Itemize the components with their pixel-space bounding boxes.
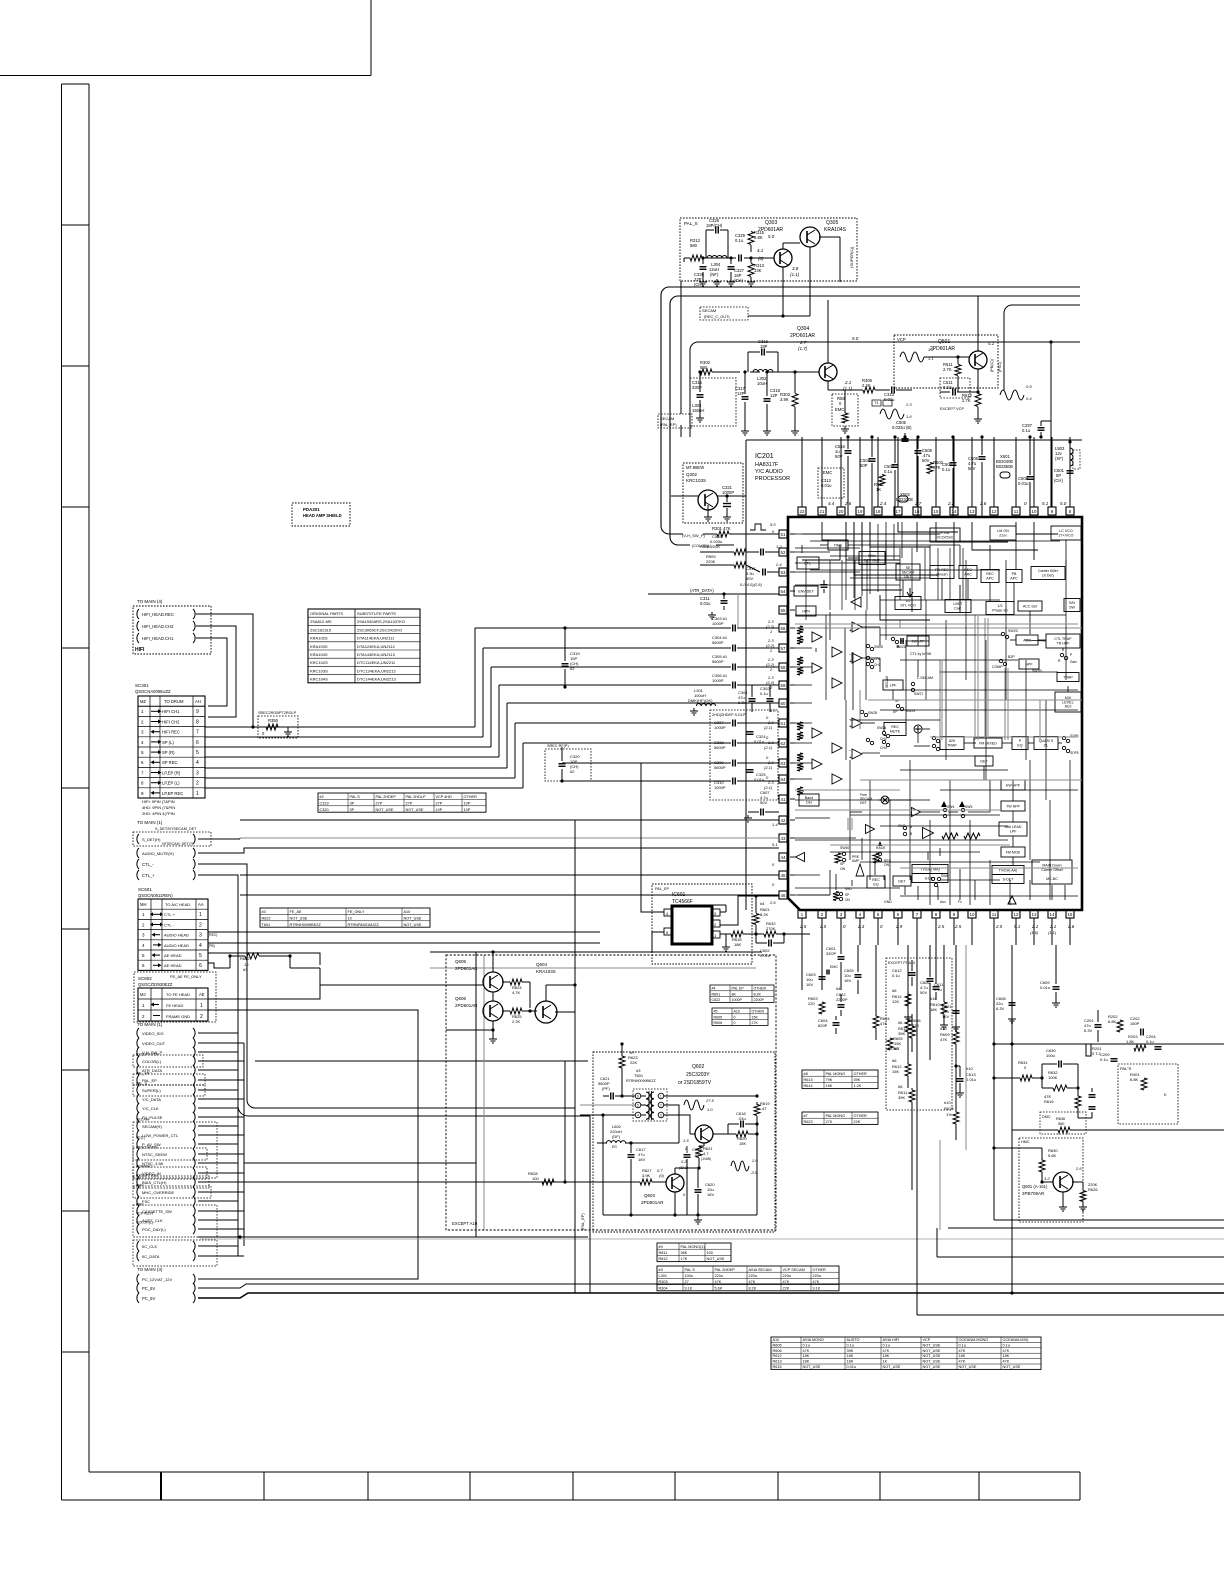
svg-text:9: 9 <box>196 709 199 715</box>
svg-text:DTA114EKA,UN2111: DTA114EKA,UN2111 <box>357 636 395 641</box>
dashed box VIDEO_IN <box>133 1167 207 1179</box>
connector VIDEO_IN <box>137 1168 139 1178</box>
svg-text:(PAL_EP): (PAL_EP) <box>581 1213 585 1230</box>
svg-text:2200P: 2200P <box>836 997 848 1002</box>
capacitor C511 dashed <box>940 378 970 398</box>
svg-text:2.7K: 2.7K <box>962 398 971 403</box>
svg-text:VIDEO_SIG: VIDEO_SIG <box>142 1031 164 1036</box>
svg-text:R605: R605 <box>714 1015 723 1019</box>
interior switch pairs <box>866 644 869 647</box>
svg-text:Carr.: Carr. <box>954 607 962 611</box>
svg-text:SP (R): SP (R) <box>162 750 175 755</box>
pin 12 bottom <box>1012 910 1020 918</box>
block TIME <box>828 540 848 550</box>
svg-text:R614: R614 <box>804 1084 813 1088</box>
diff amp triangle <box>852 749 862 759</box>
svg-text:220u: 220u <box>715 1274 723 1278</box>
svg-text:33K: 33K <box>754 268 762 273</box>
svg-text:PAL_S: PAL_S <box>136 1082 148 1086</box>
pin 13 bottom <box>1030 910 1038 918</box>
svg-text:7: 7 <box>196 730 199 736</box>
page frame top-right vertical <box>370 0 372 76</box>
svg-text:VCP: VCP <box>897 337 906 342</box>
wire Q305 collector down <box>809 247 811 316</box>
svg-text:FE_AE: FE_AE <box>290 910 302 914</box>
svg-text:#2: #2 <box>570 769 575 774</box>
wire Q501 collector <box>977 296 979 351</box>
svg-text:PB: PB <box>1012 572 1017 576</box>
EXCEPT PT A10 dashed enclosure <box>886 958 952 1110</box>
svg-text:A10: A10 <box>773 1338 780 1342</box>
svg-text:47K: 47K <box>940 1037 947 1042</box>
capacitor C329 <box>738 255 740 262</box>
svg-text:15K: 15K <box>752 1015 759 1019</box>
wire Q303 emitter down <box>782 267 784 316</box>
svg-text:3.9K: 3.9K <box>780 397 789 402</box>
vertical x917 from pin7 <box>916 945 918 1315</box>
wire Q304 collector up <box>827 300 829 363</box>
svg-text:DTA124EKA,UN2112: DTA124EKA,UN2112 <box>357 644 396 649</box>
wires into IC left pins lower <box>240 819 779 821</box>
wire AUDIO_MUTE long <box>198 848 779 853</box>
connector PAL_EP <box>137 1075 139 1085</box>
resistor R604 <box>873 1016 879 1028</box>
below-IC wire rail <box>801 945 803 990</box>
transistor Q501 <box>969 351 987 369</box>
table A10 options <box>771 1337 1041 1369</box>
svg-text:HA8317F: HA8317F <box>755 462 779 468</box>
svg-text:(S Det): (S Det) <box>1042 574 1053 578</box>
svg-text:RACK: RACK <box>876 846 886 850</box>
svg-text:4HD: 9PIN (7&PIN: 4HD: 9PIN (7&PIN <box>142 805 175 810</box>
wires T601 left pins <box>630 1095 635 1097</box>
svg-text:150P: 150P <box>1130 1021 1140 1026</box>
svg-text:ASIA HIFI: ASIA HIFI <box>883 1338 900 1342</box>
svg-text:SREC2RGBPT2RGLP: SREC2RGBPT2RGLP <box>258 711 297 715</box>
transistor Q602 circle <box>695 1125 713 1143</box>
svg-text:KRC104S: KRC104S <box>310 677 328 682</box>
connector AUDIO_MUTE <box>137 848 139 858</box>
svg-text:5.6K: 5.6K <box>715 1286 723 1290</box>
pin 5 bottom <box>874 910 882 918</box>
svg-text:25C3203Y: 25C3203Y <box>686 1072 710 1078</box>
ground R616 node <box>725 934 727 944</box>
svg-text:REC: REC <box>872 878 880 882</box>
svg-text:SUBSTITUTE PARTS: SUBSTITUTE PARTS <box>357 611 396 616</box>
svg-text:HIFI_HEAD.CH1: HIFI_HEAD.CH1 <box>142 636 174 641</box>
svg-text:2.3: 2.3 <box>857 924 865 929</box>
svg-text:4.7K: 4.7K <box>512 990 521 995</box>
svg-text:#4: #4 <box>836 986 841 991</box>
svg-text:R612: R612 <box>773 1354 782 1358</box>
svg-text:#6: #6 <box>898 1084 903 1089</box>
wire SC301 row 6 <box>205 756 499 758</box>
svg-text:6.8K: 6.8K <box>1130 1077 1139 1082</box>
svg-text:0 T.J: 0 T.J <box>1092 1051 1100 1056</box>
svg-text:SW26: SW26 <box>877 726 886 730</box>
svg-text:16V: 16V <box>844 978 851 983</box>
dashed box MHC <box>133 1186 211 1198</box>
block 1/2 Phase <box>986 602 1014 615</box>
svg-text:TO MAIN (1): TO MAIN (1) <box>137 820 163 825</box>
svg-text:8.2K: 8.2K <box>754 992 762 996</box>
vertical feeder x484 grey <box>483 955 485 1230</box>
svg-text:3: 3 <box>196 770 199 776</box>
svg-text:52: 52 <box>781 550 786 555</box>
svg-text:MH: MH <box>140 902 147 907</box>
svg-text:FM MOD: FM MOD <box>1006 850 1021 854</box>
svg-text:15: 15 <box>1068 912 1073 917</box>
svg-text:0.1u: 0.1u <box>803 1343 810 1347</box>
resistor R616 <box>731 931 743 937</box>
svg-text:220: 220 <box>808 1001 815 1006</box>
resistor R313 <box>748 264 754 277</box>
svg-text:#8: #8 <box>804 1072 808 1076</box>
block MAIN Down Carrier <box>1032 860 1072 884</box>
svg-text:#5: #5 <box>714 1010 718 1014</box>
svg-text:EMC: EMC <box>136 1184 144 1188</box>
svg-text:COLOR(L): COLOR(L) <box>136 1221 153 1225</box>
resistor R303 <box>792 394 798 407</box>
connector PC_5V a <box>137 1283 139 1293</box>
grey feeder x940b <box>939 1140 941 1230</box>
svg-text:DET: DET <box>860 801 867 805</box>
svg-text:3P: 3P <box>350 801 355 805</box>
IC601 pin 3 <box>712 909 720 916</box>
svg-text:#6: #6 <box>892 988 897 993</box>
transistor Q305 <box>800 227 820 247</box>
pin 10 top <box>1030 507 1038 515</box>
resistor R502 <box>927 463 933 474</box>
svg-text:5.0: 5.0 <box>770 708 776 713</box>
svg-text:(DF): (DF) <box>612 1134 621 1139</box>
svg-text:AH: AH <box>195 699 201 704</box>
svg-text:27P: 27P <box>376 801 383 805</box>
svg-text:2PD601AR: 2PD601AR <box>758 227 783 233</box>
svg-text:8.2K: 8.2K <box>749 1286 757 1290</box>
signal sine waves VCP <box>900 352 924 362</box>
svg-text:OTHER: OTHER <box>813 1268 827 1272</box>
svg-text:1000P: 1000P <box>722 490 734 495</box>
svg-text:DTC124EKA,UN2212: DTC124EKA,UN2212 <box>357 668 396 673</box>
svg-text:IIC_CLK: IIC_CLK <box>142 1244 157 1249</box>
pin 7 bottom <box>913 910 921 918</box>
svg-text:2HD: 4PIN 4(7PIN: 2HD: 4PIN 4(7PIN <box>142 811 175 816</box>
svg-text:(NF): (NF) <box>710 272 719 277</box>
svg-text:LP,EP (L): LP,EP (L) <box>162 781 180 786</box>
svg-text:0.1u: 0.1u <box>735 238 744 243</box>
svg-text:EMC: EMC <box>835 407 844 412</box>
svg-text:#2: #2 <box>570 666 575 671</box>
connector FSC <box>137 1196 139 1206</box>
svg-text:DTC144EKA,UN2213: DTC144EKA,UN2213 <box>357 677 396 682</box>
svg-text:11: 11 <box>1014 509 1019 514</box>
svg-text:SP: SP <box>840 862 845 866</box>
horizontal feeder y968 <box>430 967 756 969</box>
svg-text:50V: 50V <box>922 458 930 463</box>
svg-text:15K: 15K <box>739 1141 746 1146</box>
svg-text:(2.1): (2.1) <box>764 745 773 750</box>
svg-text:5600P: 5600P <box>714 745 726 750</box>
switch COMP <box>999 659 1002 662</box>
wire SC601 pin5 <box>208 953 320 965</box>
svg-text:TR HPF: TR HPF <box>1057 642 1071 646</box>
ground Q602 rail <box>697 1217 699 1220</box>
svg-text:LOW_POWER_CTL: LOW_POWER_CTL <box>142 1133 179 1138</box>
svg-text:5.0: 5.0 <box>1060 501 1067 506</box>
table #4 R601/C622 <box>710 985 774 1002</box>
svg-text:#10: #10 <box>966 1066 973 1071</box>
svg-text:47K: 47K <box>715 1280 722 1284</box>
svg-text:SC602: SC602 <box>138 976 152 981</box>
svg-text:PAL_EP: PAL_EP <box>655 887 670 891</box>
connector HIFI_HEAD.CH2 <box>137 621 139 631</box>
svg-text:SW1: SW1 <box>845 887 852 891</box>
svg-text:21: 21 <box>820 509 825 514</box>
svg-text:R303: R303 <box>659 1280 668 1284</box>
connector table SC602 dashed enclosure <box>134 972 216 1022</box>
wire SC301 row 8 <box>205 777 515 779</box>
wire S_DET long <box>198 838 240 840</box>
svg-text:LC VCO: LC VCO <box>1059 529 1073 533</box>
svg-text:47K: 47K <box>959 1349 966 1353</box>
svg-text:27P: 27P <box>436 801 443 805</box>
svg-text:MHC_OVERRIDE: MHC_OVERRIDE <box>142 1190 175 1195</box>
svg-text:SECAM: SECAM <box>660 416 674 421</box>
svg-text:REC: REC <box>986 572 994 576</box>
svg-text:5.0: 5.0 <box>768 234 775 239</box>
svg-text:L301: L301 <box>659 1274 667 1278</box>
svg-text:5.1: 5.1 <box>772 842 778 847</box>
connector VIDEO_OUT <box>137 1038 139 1048</box>
svg-text:MUTE: MUTE <box>890 730 901 734</box>
svg-text:R304: R304 <box>659 1286 668 1290</box>
pin 8 top <box>1066 507 1074 515</box>
svg-text:2.6: 2.6 <box>1067 924 1075 929</box>
svg-text:10P: 10P <box>464 808 471 812</box>
svg-text:4: 4 <box>637 1114 639 1118</box>
svg-text:IC601: IC601 <box>672 892 686 898</box>
wire T601 pin2 <box>664 1105 679 1143</box>
svg-text:2.1: 2.1 <box>1031 924 1039 929</box>
VCP dashed enclosure <box>894 335 998 388</box>
svg-text:(V-H_SW_P): (V-H_SW_P) <box>682 533 706 538</box>
pin 11 bottom <box>990 910 998 918</box>
svg-text:STL VCO: STL VCO <box>900 604 915 608</box>
wire IC601 pin5 to grey rail <box>652 932 660 952</box>
block FM MOD <box>1001 847 1025 857</box>
svg-text:(0): (0) <box>758 256 764 261</box>
summing node <box>914 725 922 733</box>
svg-text:Aux: Aux <box>940 900 946 904</box>
svg-text:2.4: 2.4 <box>879 501 887 506</box>
switch SOP <box>1062 736 1065 739</box>
svg-text:TO MAIN (4): TO MAIN (4) <box>137 599 163 604</box>
wire NTSC long <box>244 1162 476 1164</box>
svg-text:0.01u: 0.01u <box>1040 985 1050 990</box>
interior grey bus wires <box>795 627 1082 629</box>
svg-text:HIFI: HIFI <box>135 647 145 653</box>
svg-text:2PD601AR: 2PD601AR <box>455 1003 478 1008</box>
wire SC301 row 5 <box>205 746 491 748</box>
svg-text:33OP: 33OP <box>826 951 837 956</box>
svg-text:(PB): (PB) <box>208 944 215 948</box>
svg-text:TV/DA) AA): TV/DA) AA) <box>999 868 1018 872</box>
block PB-REC <box>930 566 954 579</box>
svg-text:2SA812-MS: 2SA812-MS <box>310 619 332 624</box>
svg-text:Q603: Q603 <box>644 1193 656 1198</box>
wire HIFI CH2 to SC301 pin8 <box>196 626 236 717</box>
svg-text:2: 2 <box>660 1104 662 1108</box>
bottom rail Q602 section <box>603 1214 757 1216</box>
svg-text:2.1: 2.1 <box>844 380 852 385</box>
svg-text:PAL EP: PAL EP <box>732 987 745 991</box>
svg-text:2SC1623L5: 2SC1623L5 <box>310 627 332 632</box>
svg-text:16V: 16V <box>638 1157 645 1162</box>
svg-text:2.7K: 2.7K <box>943 367 952 372</box>
svg-text:CTL_-: CTL_- <box>142 862 154 867</box>
svg-text:39K: 39K <box>898 1095 905 1100</box>
svg-text:43: 43 <box>781 836 786 841</box>
dashed box PAL_EP <box>133 1074 205 1085</box>
pin 10 bottom <box>968 910 976 918</box>
svg-text:0.9: 0.9 <box>1026 384 1032 389</box>
svg-text:COLOR(L): COLOR(L) <box>142 1059 162 1064</box>
svg-text:#4: #4 <box>760 901 765 906</box>
block REC ARC <box>959 566 977 579</box>
transistor Q601b <box>1053 1172 1073 1192</box>
pin 46 left <box>779 891 787 899</box>
svg-text:PAL_S: PAL_S <box>684 221 698 226</box>
resistor R624 <box>510 979 522 985</box>
svg-text:0.1u: 0.1u <box>892 973 900 978</box>
wire Q604 emitter <box>555 1011 575 1013</box>
svg-text:27: 27 <box>685 1280 689 1284</box>
svg-text:5: 5 <box>199 953 202 959</box>
svg-text:Det: Det <box>806 801 812 805</box>
IC internal staircase wires <box>846 522 900 560</box>
EXCEPT A10 dashed enclosure <box>446 955 776 1230</box>
svg-text:VCP 4HD: VCP 4HD <box>436 795 453 799</box>
svg-text:8K: 8K <box>732 992 737 996</box>
svg-text:OTHER: OTHER <box>464 795 478 799</box>
svg-text:AE HEAD: AE HEAD <box>164 963 182 968</box>
svg-text:EMC: EMC <box>830 965 838 969</box>
pin 15 top <box>932 507 940 515</box>
svg-text:+: + <box>849 628 852 634</box>
svg-text:REC: REC <box>891 725 899 729</box>
svg-text:3: 3 <box>660 1114 662 1118</box>
svg-text:ASIA SECAM: ASIA SECAM <box>749 1268 772 1272</box>
pin 8 bottom <box>932 910 940 918</box>
svg-text:6.3V: 6.3V <box>738 700 747 705</box>
wire REC_C_OUT <box>748 315 810 317</box>
svg-text:47K: 47K <box>1003 1349 1010 1353</box>
SECAM PAL_EP dashed label <box>658 414 692 428</box>
svg-text:8: 8 <box>196 719 199 725</box>
svg-text:FE_AE FE_ONLY: FE_AE FE_ONLY <box>170 974 202 979</box>
svg-text:1K: 1K <box>883 1360 888 1364</box>
svg-text:SREC RF(P): SREC RF(P) <box>547 744 569 748</box>
block TV DA <box>992 866 1024 875</box>
svg-text:Carrier Offset: Carrier Offset <box>1041 868 1063 872</box>
svg-text:0.033u: 0.033u <box>710 539 722 544</box>
svg-text:VCO/OSC: VCO/OSC <box>937 536 954 540</box>
svg-text:18K: 18K <box>847 1360 854 1364</box>
capacitor C321 <box>723 503 731 505</box>
pin 21 top <box>818 507 826 515</box>
svg-text:6: 6 <box>196 740 199 746</box>
svg-text:NOT_USE: NOT_USE <box>376 808 394 812</box>
connector wire bundle <box>198 1032 238 1034</box>
svg-text:39K: 39K <box>854 1078 861 1082</box>
svg-text:GND: GND <box>884 900 892 904</box>
svg-text:(2.1): (2.1) <box>764 725 773 730</box>
connector ATR_DATA <box>137 1065 139 1075</box>
block DET bottom <box>893 876 911 886</box>
switch pre-trap <box>932 736 935 739</box>
resistor R605b <box>887 1038 893 1050</box>
table FE_AE options <box>260 908 430 927</box>
svg-text:13: 13 <box>1032 912 1037 917</box>
svg-text:TO DRUM: TO DRUM <box>164 699 184 704</box>
svg-text:50V: 50V <box>835 454 843 459</box>
svg-text:HIFI_HEAD.REC: HIFI_HEAD.REC <box>142 612 174 617</box>
pin 52 left <box>779 548 787 556</box>
svg-text:TRAP: TRAP <box>1063 675 1073 679</box>
svg-text:QSOCNA0096UZZ: QSOCNA0096UZZ <box>135 689 171 694</box>
svg-text:220u: 220u <box>813 1274 821 1278</box>
horizontal feeder y952 <box>430 951 762 953</box>
svg-text:22: 22 <box>800 509 805 514</box>
block FM MIXED <box>974 738 1002 748</box>
bus wire A <box>246 912 248 1100</box>
svg-text:16V: 16V <box>942 1014 949 1019</box>
connector FV_PULSE <box>137 1112 139 1122</box>
svg-text:12: 12 <box>992 509 997 514</box>
svg-text:21xx: 21xx <box>999 534 1007 538</box>
block SECAM DET <box>896 564 920 580</box>
svg-text:PAL MONO: PAL MONO <box>826 1072 846 1076</box>
svg-text:1%: 1% <box>946 1112 952 1117</box>
svg-text:18K: 18K <box>959 1354 966 1358</box>
svg-text:NTSC SKEW: NTSC SKEW <box>136 1146 158 1150</box>
svg-text:(1.1): (1.1) <box>1048 930 1057 935</box>
svg-text:AA: AA <box>198 902 204 907</box>
svg-text:16: 16 <box>915 509 920 514</box>
block LIMIT Carr <box>945 600 971 613</box>
svg-text:R622: R622 <box>262 916 271 920</box>
resistor R621 <box>696 1147 702 1158</box>
svg-text:OTHER: OTHER <box>854 1072 868 1076</box>
svg-text:IIC_DATA: IIC_DATA <box>142 1254 160 1259</box>
svg-text:42: 42 <box>781 818 786 823</box>
svg-text:R506 220K: R506 220K <box>700 544 720 549</box>
svg-text:3.9K: 3.9K <box>642 1173 651 1178</box>
svg-text:EE(L): EE(L) <box>136 1136 145 1140</box>
svg-text:HIFI_HEAD.CH2: HIFI_HEAD.CH2 <box>142 624 174 629</box>
svg-text:10uH: 10uH <box>757 381 767 386</box>
svg-text:VCP SECAM: VCP SECAM <box>783 1268 805 1272</box>
pin 9 bottom <box>950 910 958 918</box>
pin 15 bottom <box>1066 910 1074 918</box>
svg-text:#6: #6 <box>898 1020 903 1025</box>
wire hmc top <box>994 1147 1042 1149</box>
capacitor C315 dashed box L303 <box>690 378 736 426</box>
svg-text:61: 61 <box>781 721 786 726</box>
connector HIFI_HEAD.CH1 <box>137 633 139 643</box>
svg-text:1.8K: 1.8K <box>1126 1039 1135 1044</box>
